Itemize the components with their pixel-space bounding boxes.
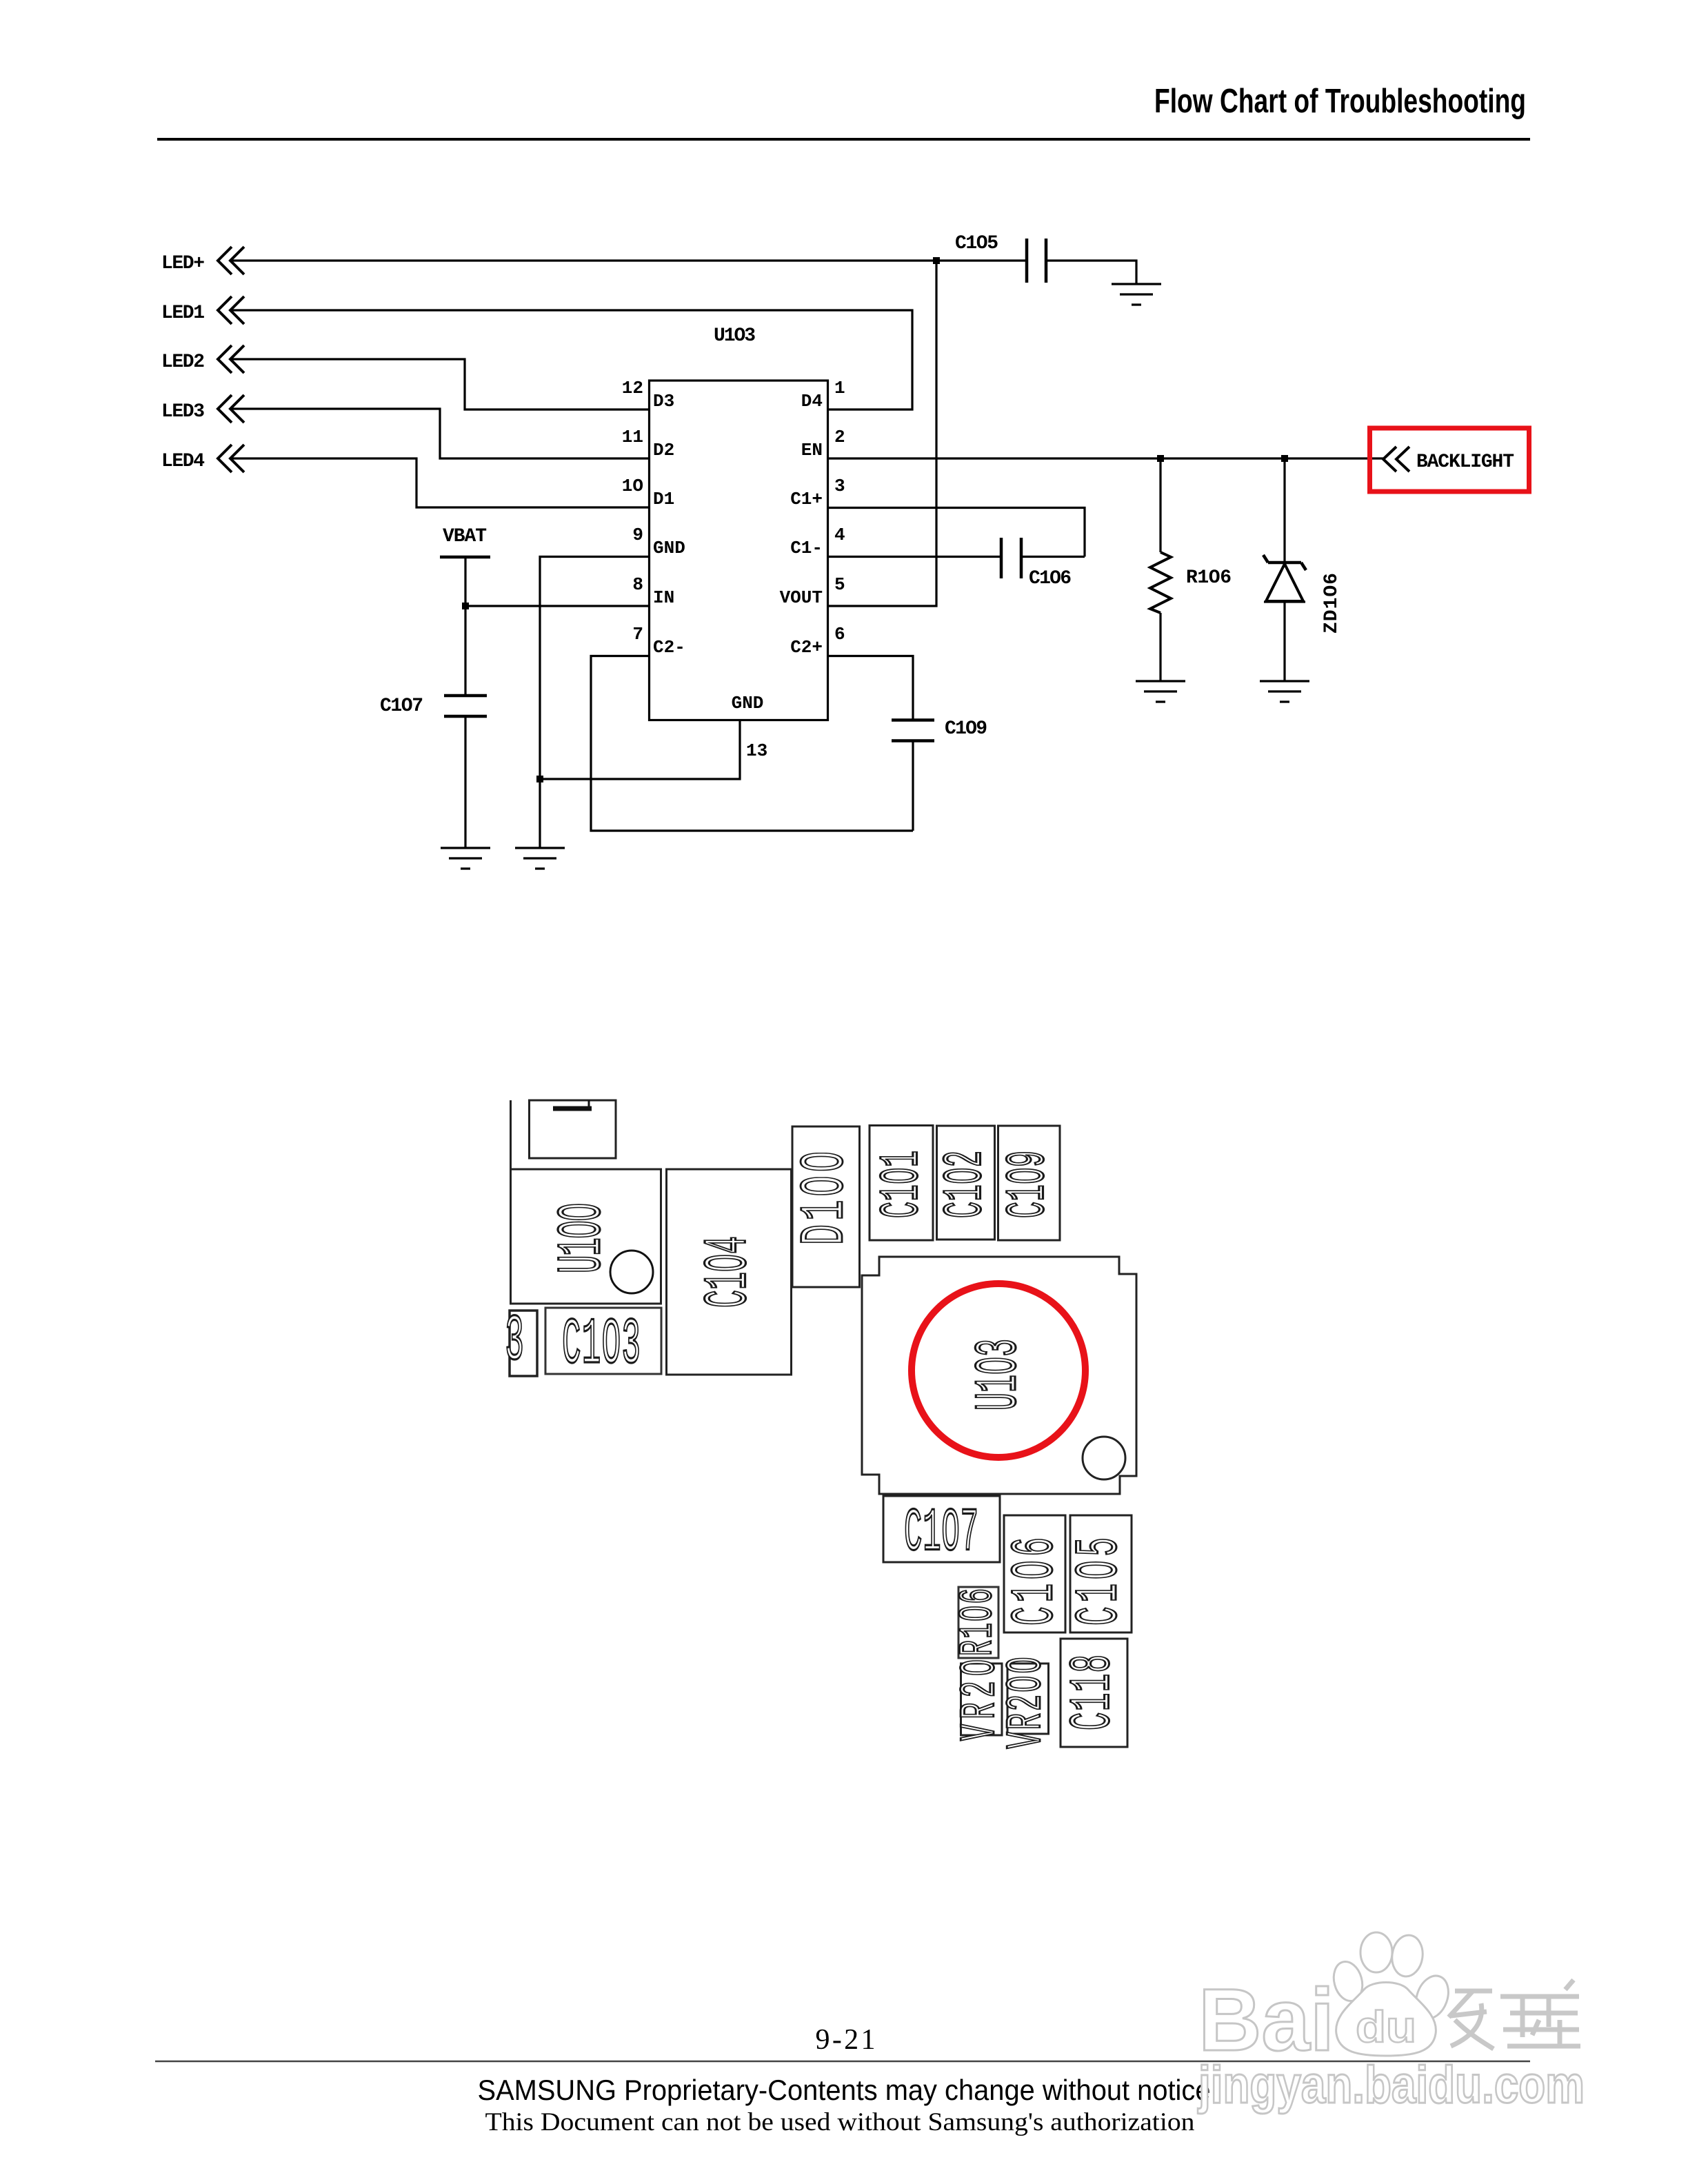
svg-text:VOUT: VOUT	[780, 587, 823, 608]
pin 12 D3	[622, 378, 674, 412]
svg-text:C1O3: C1O3	[562, 1309, 641, 1383]
pcb C107	[883, 1496, 1000, 1568]
svg-text:jingyan.baidu.com: jingyan.baidu.com	[1197, 2056, 1585, 2114]
svg-text:D4: D4	[801, 391, 823, 412]
wire LED3 to D2	[230, 409, 649, 458]
capacitor C105	[955, 233, 1046, 283]
wire GND pin9 rail	[540, 557, 649, 849]
wire C109 to loop	[912, 741, 914, 831]
pin 10 D1	[622, 476, 674, 509]
svg-text:SAMSUNG Proprietary-Contents m: SAMSUNG Proprietary-Contents may change …	[478, 2074, 1211, 2106]
svg-text:Flow Chart of Troubleshooting: Flow Chart of Troubleshooting	[1154, 83, 1526, 120]
node LED+	[161, 247, 244, 274]
pin 5 VOUT	[780, 574, 845, 608]
pcb C102	[934, 1126, 996, 1240]
capacitor C109	[892, 718, 987, 741]
wire IN	[465, 605, 649, 607]
pcb C118	[1061, 1639, 1127, 1747]
svg-text:C1O9: C1O9	[996, 1151, 1059, 1218]
svg-text:5: 5	[834, 574, 845, 595]
wire LED+ to C105	[230, 259, 1027, 261]
wire C2+ to C109	[827, 656, 913, 720]
pin 6 C2+	[790, 624, 845, 658]
port BACKLIGHT	[1370, 428, 1529, 492]
junction VBAT/IN	[462, 603, 469, 609]
svg-text:C1O6: C1O6	[1029, 568, 1072, 589]
svg-text:EN: EN	[801, 440, 823, 461]
svg-text:8: 8	[632, 574, 643, 595]
svg-text:1: 1	[834, 378, 845, 398]
svg-text:LED+: LED+	[161, 253, 205, 274]
svg-text:C1-: C1-	[790, 538, 823, 558]
pcb C109	[996, 1126, 1060, 1240]
wire C1+ loop	[827, 508, 1085, 557]
wire VOUT vertical	[827, 261, 936, 606]
svg-text:U1O3: U1O3	[966, 1339, 1033, 1410]
ground R106	[1136, 681, 1185, 702]
footer rule	[155, 2061, 1530, 2063]
svg-text:C1O4: C1O4	[694, 1236, 763, 1308]
node LED2	[161, 345, 244, 373]
svg-text:11: 11	[622, 427, 643, 447]
wire LED1 to D4	[230, 310, 912, 410]
svg-text:6: 6	[834, 624, 845, 645]
svg-text:R1O6: R1O6	[1186, 567, 1232, 589]
ground GND rail	[515, 848, 565, 869]
wire C2- loop	[591, 656, 913, 831]
svg-text:C1O1: C1O1	[870, 1151, 933, 1218]
junction EN/R106	[1157, 455, 1164, 462]
svg-text:U1O3: U1O3	[714, 325, 756, 347]
svg-text:C1O9: C1O9	[945, 718, 987, 740]
svg-text:9-21: 9-21	[816, 2024, 876, 2056]
pcb U103 footprint	[862, 1257, 1136, 1494]
svg-text:du: du	[1356, 2002, 1416, 2052]
svg-text:LED3: LED3	[161, 401, 205, 423]
svg-text:9: 9	[632, 525, 643, 545]
svg-text:C2-: C2-	[653, 637, 685, 658]
pin 8 IN	[632, 574, 674, 608]
svg-text:C1O5: C1O5	[955, 233, 998, 254]
svg-text:3: 3	[834, 476, 845, 496]
node LED3	[161, 395, 244, 423]
pcb R106	[952, 1587, 1005, 1658]
svg-text:ZD1O6: ZD1O6	[1321, 573, 1343, 634]
PCB LAYOUT	[505, 1100, 1136, 1749]
pin 9 GND	[632, 525, 685, 558]
svg-text:U1OO: U1OO	[548, 1203, 619, 1273]
svg-text:2: 2	[834, 427, 845, 447]
wire LED2 to D3	[230, 359, 649, 410]
svg-text:C1O7: C1O7	[380, 696, 423, 717]
pcb partial label 3	[505, 1306, 537, 1379]
ground C107	[441, 848, 490, 869]
header rule	[157, 138, 1530, 141]
pcb C106	[1002, 1515, 1070, 1632]
pcb C105	[1066, 1515, 1134, 1632]
pin 11 D2	[622, 427, 674, 461]
svg-text:D3: D3	[653, 391, 674, 412]
svg-text:C1O2: C1O2	[934, 1151, 996, 1218]
svg-text:3: 3	[505, 1306, 524, 1379]
svg-text:7: 7	[632, 624, 643, 645]
svg-text:IN: IN	[653, 587, 674, 608]
junction EN/ZD106	[1281, 455, 1288, 462]
pcb C101	[870, 1126, 934, 1241]
pcb partial component top-left	[511, 1100, 616, 1178]
svg-text:C1+: C1+	[790, 489, 823, 509]
wire EN to BACKLIGHT	[827, 457, 1383, 459]
capacitor C107	[380, 606, 487, 848]
svg-text:D2: D2	[653, 440, 674, 461]
op IC U103 body	[650, 381, 828, 720]
svg-text:GND: GND	[653, 538, 685, 558]
node LED4	[161, 445, 244, 472]
ground ZD106	[1260, 681, 1309, 702]
svg-text:LED2: LED2	[161, 352, 205, 373]
wire pin13 to GND rail	[540, 720, 740, 779]
svg-text:VBAT: VBAT	[443, 526, 487, 547]
svg-text:1O: 1O	[622, 476, 643, 496]
pcb U100	[511, 1169, 661, 1304]
svg-text:13: 13	[746, 740, 767, 761]
node LED1	[161, 296, 244, 324]
svg-text:This Document can not be used: This Document can not be used without Sa…	[485, 2108, 1195, 2136]
pcb VR20	[954, 1659, 1009, 1741]
wire C106 to C1+ loop	[1021, 556, 1085, 558]
pin 7 C2-	[632, 624, 685, 658]
pin 2 EN	[801, 427, 845, 461]
power VBAT	[440, 526, 490, 606]
svg-text:C1O7: C1O7	[904, 1499, 978, 1568]
wire C105 to ground	[1046, 261, 1136, 284]
wire LED4 to D1	[230, 458, 649, 507]
svg-text:D1: D1	[653, 489, 674, 509]
svg-text:BACKLIGHT: BACKLIGHT	[1416, 452, 1514, 473]
pin 1 D4	[801, 378, 845, 412]
watermark baidu logo	[1198, 1932, 1580, 2070]
resistor R106	[1150, 458, 1232, 681]
junction GND rail / pin13	[536, 776, 543, 782]
pcb D100	[790, 1126, 861, 1287]
zener ZD106	[1263, 458, 1343, 681]
svg-text:4: 4	[834, 525, 845, 545]
junction LED+/VOUT	[933, 257, 940, 264]
pcb C103	[545, 1308, 661, 1382]
pin 4 C1-	[790, 525, 845, 558]
capacitor C106	[1001, 538, 1072, 589]
pcb C104	[667, 1169, 792, 1375]
svg-text:GND: GND	[732, 693, 764, 714]
pin 13 GND bottom	[732, 693, 768, 761]
svg-text:Bai: Bai	[1198, 1971, 1334, 2070]
svg-text:VR2OO: VR2OO	[1000, 1657, 1055, 1749]
svg-text:LED1: LED1	[161, 303, 205, 324]
svg-text:C2+: C2+	[790, 637, 823, 658]
svg-text:12: 12	[622, 378, 643, 398]
svg-text:LED4: LED4	[161, 451, 205, 472]
svg-text:C118: C118	[1061, 1655, 1126, 1730]
wire C1- to C106	[827, 556, 1001, 558]
SCHEMATIC	[161, 233, 1529, 869]
pin 3 C1+	[790, 476, 845, 509]
ground C105	[1112, 284, 1161, 305]
pcb VR200	[1000, 1657, 1055, 1749]
